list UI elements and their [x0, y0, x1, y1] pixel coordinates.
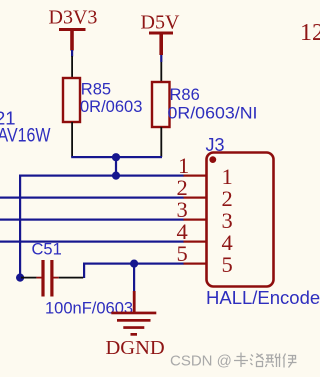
power symbol D3V3 [59, 28, 86, 51]
svg-text:5: 5 [222, 252, 233, 277]
junction [112, 153, 120, 161]
pin J3.1 [184, 175, 207, 177]
wire net 3 [0, 219, 184, 221]
svg-text:R85: R85 [81, 80, 111, 98]
pin C51.1 [21, 277, 36, 279]
svg-text:R86: R86 [170, 86, 200, 104]
svg-text:5: 5 [177, 241, 188, 266]
svg-text:100nF/0603: 100nF/0603 [45, 299, 133, 317]
wire net 2 [0, 197, 184, 199]
hanzi 3 [266, 354, 281, 368]
pin J3.2 [184, 197, 207, 199]
svg-text:HALL/Encoder: HALL/Encoder [206, 287, 320, 308]
wire resistor junction [71, 156, 162, 158]
svg-text:D3V3: D3V3 [49, 7, 98, 29]
wire [160, 55, 162, 62]
resistor R86 [152, 82, 170, 127]
pin R85.2 [71, 122, 73, 157]
junction [16, 274, 24, 282]
watermark CSDN [170, 353, 297, 370]
wire net 5 [83, 263, 184, 265]
junction [130, 260, 138, 268]
pin R85.1 [71, 56, 73, 78]
junction [112, 172, 120, 180]
hanzi 4 [283, 354, 297, 368]
wire [71, 50, 73, 57]
connector J3 [207, 153, 274, 287]
power symbol D5V [149, 32, 173, 56]
hanzi 2 [250, 354, 264, 367]
svg-text:D5V: D5V [141, 12, 180, 34]
wire to ground [133, 264, 135, 293]
hanzi 1 [234, 353, 248, 368]
svg-text:0R/0603/NI: 0R/0603/NI [168, 104, 258, 123]
svg-text:CSDN @: CSDN @ [170, 353, 232, 370]
svg-text:J3: J3 [206, 135, 225, 155]
capacitor C51 [36, 260, 58, 297]
wire [19, 175, 21, 279]
pin J3.4 [184, 241, 207, 243]
wire net 1 [19, 175, 184, 177]
wire [83, 263, 85, 279]
svg-text:0R/0603: 0R/0603 [80, 98, 142, 116]
pin C51.2 [59, 277, 83, 279]
svg-text:AV16W: AV16W [0, 125, 51, 147]
svg-text:C51: C51 [32, 241, 62, 259]
pin R86.2 [160, 127, 162, 157]
svg-text:DGND: DGND [106, 337, 165, 359]
wire [115, 157, 117, 176]
resistor R85 [63, 78, 80, 122]
pin J3.3 [184, 219, 207, 221]
pin J3.5 [184, 263, 207, 265]
ground DGND [111, 291, 156, 336]
svg-text:12: 12 [300, 20, 320, 46]
pin R86.1 [160, 62, 162, 82]
wire net 4 [0, 241, 184, 243]
